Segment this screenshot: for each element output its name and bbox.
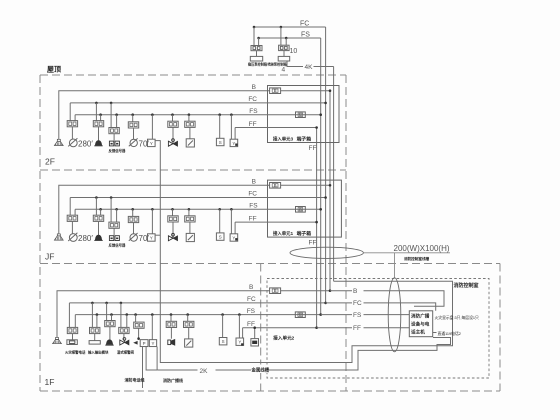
stub wire 直通 bbox=[433, 332, 437, 334]
svg-text:Y: Y bbox=[152, 341, 155, 346]
wire FS drop to flow switch 2 bbox=[285, 38, 287, 45]
svg-text:Y: Y bbox=[232, 141, 235, 146]
1F col2 isolator bbox=[90, 327, 100, 333]
svg-text:G: G bbox=[299, 312, 302, 317]
1F FS bus wire bbox=[75, 314, 320, 316]
horizontal cable duct ellipse bbox=[290, 247, 363, 258]
JF col5 riser stub bbox=[155, 234, 160, 236]
label 2K bbox=[198, 366, 216, 375]
2F col7 damper bbox=[186, 139, 194, 147]
2F col7 wire bbox=[188, 115, 190, 122]
1F col8 module S bbox=[219, 338, 227, 345]
1F col2 junction FS bbox=[96, 313, 99, 316]
JF col7 isolator bbox=[185, 216, 195, 222]
1F col7 isolator bbox=[184, 321, 194, 327]
svg-text:200(W)X100(H): 200(W)X100(H) bbox=[394, 244, 450, 253]
JF col6 junction FS bbox=[171, 208, 174, 211]
JF col1 wires bbox=[69, 198, 71, 216]
1F col7 damper bbox=[185, 339, 193, 347]
1F col1 fire phone bbox=[67, 340, 77, 345]
JF col4 isolator bbox=[128, 216, 138, 222]
svg-text:金属线槽: 金属线槽 bbox=[251, 367, 270, 374]
svg-text:反馈信号器: 反馈信号器 bbox=[109, 243, 127, 248]
1F col3 isolator bbox=[105, 321, 115, 327]
JF col5 speaker module Y bbox=[148, 234, 156, 241]
2F FS bus wire bbox=[75, 114, 321, 116]
2F B bus wire bbox=[59, 91, 270, 140]
JF FF wire bbox=[235, 221, 317, 223]
2F col5 speaker module Y bbox=[148, 139, 156, 146]
svg-text:280′: 280′ bbox=[78, 234, 93, 243]
1F col4 junction FC bbox=[120, 302, 123, 305]
2F col8 wire bbox=[219, 115, 221, 138]
JF col1 drop bbox=[71, 221, 73, 233]
JF col2 junction FC bbox=[95, 196, 98, 199]
JF junction B trunk bbox=[329, 184, 332, 187]
JF col8 wire bbox=[219, 209, 221, 232]
wire module1 to tank1 bbox=[256, 51, 258, 57]
2F col2 wires bbox=[95, 103, 97, 121]
junction roof FS-2 bbox=[285, 37, 288, 40]
svg-text:FS: FS bbox=[249, 203, 258, 210]
svg-text:FC: FC bbox=[247, 296, 256, 303]
control-area dashed border right bbox=[499, 264, 501, 392]
JF col2 wires bbox=[95, 198, 97, 216]
roof FS bus wire bbox=[259, 37, 321, 39]
svg-text:FS: FS bbox=[247, 308, 256, 315]
1F col9 junction FS bbox=[238, 313, 241, 316]
1F col1 drop bbox=[72, 334, 74, 340]
1F valve arrow bbox=[133, 341, 137, 345]
floor divider JF/1F dashed (extends to control room) bbox=[40, 263, 500, 265]
JF terminal box 端子箱 bbox=[268, 180, 342, 237]
JF col9 junction FS bbox=[230, 208, 233, 211]
control room label FF bbox=[352, 323, 364, 332]
svg-text:FC: FC bbox=[353, 300, 362, 307]
1F col4 alarm valve bbox=[120, 340, 125, 345]
1F module B bbox=[270, 288, 281, 294]
wire FC drop to flow switch 1 bbox=[253, 27, 255, 46]
control room label FS bbox=[352, 310, 364, 319]
JF col4 junction FS bbox=[131, 208, 134, 211]
2F col2 junction FS bbox=[99, 113, 102, 116]
1F col7 drop bbox=[188, 328, 190, 339]
2F wire B to trunk bbox=[281, 90, 330, 92]
JF manual call point (hatched) bbox=[54, 236, 63, 240]
svg-text:B: B bbox=[353, 288, 357, 295]
1F col9 wire FF bbox=[242, 328, 244, 338]
2F col7 junction FS bbox=[188, 113, 191, 116]
JF col3 indicator pair bbox=[109, 236, 113, 241]
svg-text:B: B bbox=[274, 288, 277, 293]
1F col3 alarm bell bbox=[106, 340, 112, 345]
svg-text:4K: 4K bbox=[305, 64, 314, 71]
svg-text:2F: 2F bbox=[45, 157, 55, 167]
JF col7 drop bbox=[189, 222, 191, 233]
svg-text:FC: FC bbox=[248, 96, 257, 103]
1F B bus wire bbox=[57, 291, 270, 337]
1F module G bbox=[295, 312, 305, 318]
junction roof FS-1 bbox=[257, 37, 260, 40]
floor-area dashed border right bbox=[345, 75, 347, 391]
svg-text:火灾报警电话: 火灾报警电话 bbox=[65, 350, 86, 355]
1F col5 drop bbox=[138, 328, 140, 340]
svg-text:B: B bbox=[252, 179, 256, 186]
vertical cable duct ellipse bbox=[388, 278, 401, 352]
1F col2 junction FC bbox=[91, 302, 94, 305]
floor-area dashed border top bbox=[40, 74, 346, 76]
1F col4 drop bbox=[123, 334, 125, 340]
svg-text:S: S bbox=[222, 339, 225, 344]
2F junction B trunk bbox=[329, 89, 332, 92]
1F col6 wire bbox=[170, 315, 172, 322]
2F col1 short-circuit isolator bbox=[67, 121, 77, 127]
1F recorder module bbox=[251, 339, 259, 346]
JF col3 wires bbox=[110, 198, 112, 223]
trunk wire 4K bbox=[333, 67, 335, 282]
JF col4 drop bbox=[133, 223, 135, 234]
JF col3 junction FS bbox=[115, 208, 118, 211]
JF col6 wire bbox=[172, 209, 174, 216]
1F col4 wires bbox=[120, 303, 122, 328]
JF col6 isolator bbox=[168, 216, 178, 222]
JF col2 drop bbox=[98, 221, 100, 235]
JF col7 damper bbox=[186, 233, 194, 241]
svg-text:设备与电: 设备与电 bbox=[411, 321, 430, 328]
2F col6 junction FS bbox=[171, 113, 174, 116]
JF col5 wire bbox=[151, 209, 153, 234]
svg-text:2K: 2K bbox=[200, 368, 209, 375]
svg-text:消防控制室线槽: 消防控制室线槽 bbox=[404, 256, 430, 261]
svg-text:B: B bbox=[252, 84, 256, 91]
2F manual call point (hatched) bbox=[54, 141, 63, 145]
1F manual call point (hatched) bbox=[53, 340, 62, 344]
2F col6 drop bbox=[172, 127, 174, 142]
2F col9 junction FS bbox=[230, 113, 233, 116]
svg-text:G: G bbox=[299, 112, 302, 117]
svg-text:4: 4 bbox=[282, 67, 286, 74]
2F col4 junction FS bbox=[131, 113, 134, 116]
2F junction FC trunk bbox=[324, 102, 327, 105]
broadcast riser + staircase to control room bbox=[160, 140, 452, 362]
JF col4 detector circle bbox=[130, 234, 137, 241]
1F room divider dashed bbox=[260, 264, 262, 392]
2F col5 wire bbox=[151, 115, 153, 140]
1F col5b junction FS bbox=[151, 313, 154, 316]
2F col9 wire FS bbox=[230, 115, 232, 140]
JF module G bbox=[296, 207, 306, 213]
svg-text:端子箱: 端子箱 bbox=[297, 135, 312, 142]
svg-text:湿式报警阀: 湿式报警阀 bbox=[117, 350, 135, 355]
trunk wire FC bbox=[325, 27, 327, 303]
JF wire B to trunk bbox=[281, 184, 330, 186]
JF col7 junction FS bbox=[188, 208, 191, 211]
1F col2 control panel bbox=[89, 341, 100, 345]
wire 4K from tank2 bbox=[287, 61, 303, 67]
wire FC drop to flow switch 2 bbox=[280, 27, 282, 45]
2F col7 isolator bbox=[185, 121, 195, 127]
JF col2 junction FS bbox=[99, 208, 102, 211]
trunk wire FS bbox=[320, 38, 322, 315]
svg-text:消防广播: 消防广播 bbox=[411, 313, 430, 320]
svg-text:消防广播线: 消防广播线 bbox=[163, 377, 183, 383]
2F col1 wires bbox=[69, 103, 71, 121]
svg-text:10: 10 bbox=[290, 48, 298, 55]
JF col6 drop bbox=[172, 222, 174, 237]
JF col3 drop bbox=[113, 228, 115, 235]
1F col4 junction FS bbox=[126, 313, 129, 316]
control room label FC bbox=[352, 298, 364, 307]
2F col8 module S bbox=[216, 138, 224, 145]
flow switch module 2 bbox=[279, 45, 290, 50]
JF col1 detector circle bbox=[69, 234, 77, 242]
2F col9 wire FF bbox=[234, 128, 236, 140]
2F col3 drop bbox=[113, 134, 115, 141]
1F wire B to trunk bbox=[281, 290, 330, 292]
svg-text:屋顶: 屋顶 bbox=[47, 65, 61, 74]
svg-text:FS: FS bbox=[301, 32, 310, 39]
1F FF wire bbox=[243, 327, 317, 329]
1F col10 wire FF bbox=[254, 328, 256, 339]
1F col7 junction FS bbox=[186, 313, 189, 316]
2F col6 wire bbox=[172, 115, 174, 122]
JF col2 isolator bbox=[93, 215, 103, 221]
JF col2 alarm bell bbox=[95, 235, 101, 240]
JF col3 junction FC bbox=[110, 196, 113, 199]
svg-text:话主机: 话主机 bbox=[411, 329, 425, 336]
label 金属线槽 bbox=[251, 365, 269, 374]
2F col3 junction FS bbox=[115, 113, 118, 116]
2F module G bbox=[296, 112, 306, 118]
2F col8 junction FS bbox=[218, 113, 221, 116]
bottom dashed border bbox=[40, 390, 500, 392]
2F col6 valve bbox=[168, 141, 173, 146]
JF col5 junction FS bbox=[151, 208, 154, 211]
1F junction FF trunk bbox=[315, 326, 318, 329]
JF col3 control module bbox=[109, 222, 119, 228]
wire FS drop to flow switch 1 bbox=[258, 38, 260, 46]
1F col2 wires bbox=[91, 303, 93, 328]
2F col3 control module bbox=[109, 128, 119, 134]
1F col1 isolator bbox=[67, 327, 77, 333]
svg-text:稳压泵控制箱: 稳压泵控制箱 bbox=[248, 62, 268, 67]
JF col8 junction FS bbox=[218, 208, 221, 211]
1F phone down-riser bbox=[142, 347, 144, 388]
2F col2 drop bbox=[98, 127, 100, 141]
JF col1 short-circuit isolator bbox=[67, 215, 77, 221]
JF FS bus wire bbox=[75, 208, 321, 210]
1F col3 drop bbox=[109, 327, 111, 341]
1F col5 wire bbox=[135, 315, 137, 323]
1F col9 wire FS bbox=[238, 315, 240, 338]
1F col5 isolator bbox=[134, 322, 144, 328]
1F col8 junction FS bbox=[221, 313, 224, 316]
svg-text:S: S bbox=[219, 140, 222, 145]
2F col2 alarm bell bbox=[95, 141, 101, 146]
svg-text:FC: FC bbox=[300, 21, 309, 28]
trunk wire FF bbox=[316, 128, 318, 328]
2F FC bus wire bbox=[70, 102, 325, 104]
roof FC bus wire bbox=[254, 26, 326, 28]
duct line 200x100 bbox=[363, 252, 450, 254]
1F telephone module Y bbox=[236, 338, 244, 345]
svg-text:消防控制室: 消防控制室 bbox=[454, 282, 479, 289]
svg-text:FF: FF bbox=[353, 325, 361, 332]
1F B wire to host bbox=[330, 291, 444, 307]
svg-text:FF: FF bbox=[249, 216, 257, 223]
1F col8 wire bbox=[222, 315, 224, 338]
svg-text:FF: FF bbox=[309, 240, 317, 247]
1F col6 speaker bbox=[168, 340, 171, 345]
svg-text:接入单元1: 接入单元1 bbox=[272, 230, 294, 237]
JF B bus wire bbox=[59, 185, 270, 234]
2F col1 detector circle bbox=[69, 139, 77, 147]
1F col5b wire bbox=[151, 315, 153, 340]
2F col2 junction FC bbox=[95, 102, 98, 105]
2F junction FF trunk bbox=[315, 126, 318, 129]
svg-text:B: B bbox=[274, 88, 277, 93]
2F col4 wire bbox=[132, 115, 134, 122]
JF col9 wire FS bbox=[230, 209, 232, 234]
1F junction FC trunk bbox=[324, 302, 327, 305]
1F junction P bbox=[137, 337, 140, 340]
flow switch module 1 bbox=[251, 46, 262, 51]
2F col2 isolator bbox=[93, 121, 103, 127]
svg-text:S: S bbox=[219, 235, 222, 240]
2F col7 drop bbox=[189, 127, 191, 138]
JF module B bbox=[270, 183, 281, 189]
svg-text:Y: Y bbox=[150, 141, 153, 146]
1F col3 junction FC bbox=[105, 302, 108, 305]
2F col5 riser stub bbox=[155, 140, 160, 142]
1F col6 junction FS bbox=[170, 313, 173, 316]
1F col6 drop bbox=[170, 328, 172, 339]
svg-text:P: P bbox=[143, 341, 146, 346]
2F junction FS trunk bbox=[319, 113, 322, 116]
1F col7 wire bbox=[187, 315, 189, 322]
svg-text:FC: FC bbox=[248, 191, 257, 198]
junction roof FC-1 bbox=[253, 26, 256, 29]
JF col8 module S bbox=[216, 233, 224, 240]
JF col4 wire bbox=[132, 209, 134, 216]
svg-text:280′: 280′ bbox=[78, 139, 93, 148]
JF col6 valve bbox=[168, 236, 173, 241]
2F col3 indicator pair bbox=[109, 141, 113, 146]
junction roof FC-2 bbox=[280, 26, 283, 29]
JF col7 wire bbox=[188, 209, 190, 216]
svg-text:端子箱: 端子箱 bbox=[297, 230, 312, 237]
2F terminal box 端子箱 bbox=[268, 86, 340, 143]
svg-text:Y: Y bbox=[232, 235, 235, 240]
2F col4 isolator bbox=[128, 122, 138, 128]
wire 4K to trunk bbox=[314, 66, 334, 68]
JF col9 telephone module bbox=[230, 234, 238, 241]
JF junction FF trunk bbox=[315, 221, 318, 224]
2F col4 detector circle bbox=[130, 139, 137, 146]
water tank 1 bbox=[250, 56, 262, 61]
svg-text:FF: FF bbox=[249, 121, 257, 128]
JF junction FS trunk bbox=[319, 208, 322, 211]
floor divider 2F/JF dashed bbox=[40, 169, 346, 171]
1F phone riser P notch bbox=[146, 347, 157, 370]
1F phone riser Y bbox=[156, 347, 158, 370]
1F FS wire to host bbox=[321, 314, 410, 316]
2F col3 junction FC bbox=[110, 102, 113, 105]
svg-text:1F: 1F bbox=[45, 377, 55, 387]
JF FC bus wire bbox=[70, 197, 325, 199]
2F FF wire bbox=[235, 127, 317, 129]
svg-text:接入单元3: 接入单元3 bbox=[272, 135, 294, 142]
wire module2 to tank2 bbox=[283, 51, 285, 57]
svg-text:接入单元2: 接入单元2 bbox=[273, 335, 294, 342]
2F col1 drop bbox=[71, 127, 73, 139]
1F col2 drop bbox=[94, 334, 96, 341]
1F junction FF col10 bbox=[253, 326, 256, 329]
host box 消防广播设备与电话主机 bbox=[409, 311, 432, 337]
svg-text:FS: FS bbox=[353, 312, 362, 319]
svg-text:FF: FF bbox=[309, 145, 317, 152]
control room label B bbox=[352, 286, 364, 295]
water tank 2 bbox=[278, 56, 290, 61]
2F col4 drop bbox=[133, 128, 135, 139]
svg-text:消防电话线: 消防电话线 bbox=[125, 377, 145, 383]
trunk wire B bbox=[329, 91, 331, 291]
2F col6 isolator bbox=[168, 121, 178, 127]
1F speaker module Y bbox=[149, 340, 156, 347]
2F col5 junction FS bbox=[151, 113, 154, 116]
1F junction B trunk bbox=[329, 289, 332, 292]
fire control room dashed box bbox=[267, 279, 489, 379]
svg-text:反馈信号器: 反馈信号器 bbox=[109, 148, 127, 153]
JF col9 wire FF bbox=[234, 222, 236, 234]
1F col3 junction FS bbox=[110, 313, 113, 316]
svg-text:JF: JF bbox=[45, 252, 54, 262]
svg-text:B: B bbox=[274, 183, 277, 188]
1F col5 junction FS bbox=[134, 313, 137, 316]
1F junction FS trunk bbox=[319, 313, 322, 316]
svg-text:直通119电话2: 直通119电话2 bbox=[438, 331, 461, 336]
1F col6 isolator bbox=[166, 321, 176, 327]
floor-area dashed border left bbox=[39, 75, 41, 391]
1F col4 isolator bbox=[119, 327, 129, 333]
1F col1 wires bbox=[68, 303, 70, 328]
1F FF wire to host bbox=[317, 327, 410, 329]
svg-text:输入输出模块: 输入输出模块 bbox=[88, 350, 109, 355]
1F FC bus wire bbox=[69, 302, 325, 304]
host staircase wire to 1F bbox=[157, 338, 450, 371]
JF junction FC trunk bbox=[324, 196, 327, 199]
1F col3 wires bbox=[106, 303, 108, 321]
2F module B bbox=[270, 88, 281, 94]
duct drop wire bbox=[394, 253, 396, 278]
1F pressure module P bbox=[140, 340, 148, 347]
2F col3 wires bbox=[110, 103, 112, 128]
svg-text:Y: Y bbox=[238, 340, 241, 345]
svg-text:B: B bbox=[249, 284, 253, 291]
svg-text:Y: Y bbox=[150, 235, 153, 240]
2F col9 telephone module bbox=[230, 139, 238, 146]
1F FC wire to host bbox=[326, 303, 436, 311]
svg-text:G: G bbox=[299, 207, 302, 212]
svg-text:FS: FS bbox=[249, 108, 258, 115]
svg-text:火灾显示盘:3只,每层设1只: 火灾显示盘:3只,每层设1只 bbox=[435, 315, 480, 320]
